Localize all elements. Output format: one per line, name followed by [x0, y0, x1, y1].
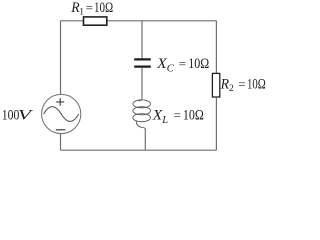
svg-text:100V: 100V	[2, 108, 34, 124]
inductor XL top lead hook	[138, 98, 142, 101]
resistor R2	[212, 73, 219, 97]
wire top horizontal (left of R1)	[61, 20, 84, 22]
ac source V circle	[42, 94, 81, 133]
capacitor XC top plate	[134, 58, 151, 60]
capacitor XC bottom plate	[134, 65, 151, 67]
wire right vertical (top corner to R2)	[215, 21, 217, 74]
ac source sine wave	[44, 107, 79, 122]
ac source minus sign	[56, 129, 65, 131]
wire middle branch (capacitor to inductor)	[141, 68, 143, 98]
svg-text:R1=10Ω: R1=10Ω	[70, 0, 113, 18]
wire middle branch lower (inductor to bottom wire)	[144, 129, 146, 150]
ac source plus sign	[56, 98, 64, 106]
svg-text:R2=10Ω: R2=10Ω	[220, 76, 266, 94]
inductor XL bottom lead hook	[136, 121, 145, 129]
wire top horizontal (R1 to top-right corner)	[107, 20, 217, 22]
svg-text:XL=10Ω: XL=10Ω	[152, 108, 204, 126]
resistor R1	[84, 17, 107, 25]
wire left vertical (top corner down to source top)	[60, 21, 62, 95]
inductor XL loop 2	[133, 107, 151, 115]
svg-text:XC=10Ω: XC=10Ω	[156, 56, 209, 74]
wire middle branch upper (top wire to capacitor)	[141, 21, 143, 59]
inductor XL loop 3	[133, 114, 151, 122]
inductor XL loop 1	[133, 100, 151, 108]
wire left vertical (source bottom to bottom corner)	[60, 134, 62, 151]
wire bottom horizontal	[61, 149, 217, 151]
wire right vertical (R2 to bottom corner)	[215, 97, 217, 150]
